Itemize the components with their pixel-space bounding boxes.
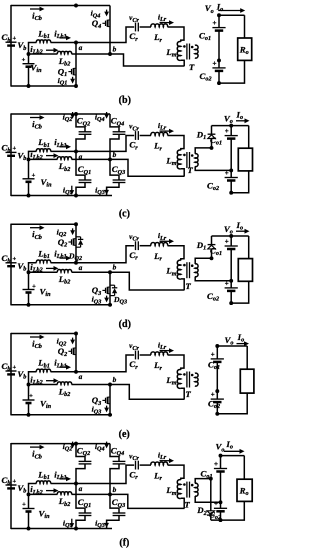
arrow i_Q1 (b) [72,77,74,81]
wire top rail (b) [11,5,110,7]
svg-text:+: + [225,279,229,287]
capacitor C_b (c) [6,151,17,153]
arrow i_Lb1 (b) [60,37,68,39]
svg-text:+: + [12,256,16,263]
wire L_b2 right (d) [72,271,111,273]
svg-text:T: T [187,165,193,175]
transformer T core (b) [186,44,188,60]
arrow i_Q4 (b) [106,10,108,14]
capacitor C_Q4 (f) [113,460,126,462]
transformer T primary polarity dot (d) [183,264,186,267]
transformer T core (d) [186,262,188,278]
capacitor C_b (d) [6,262,17,264]
inductor L_b1 (e) [36,369,50,372]
arrow i_Lr (e) [160,350,171,352]
svg-text:+: + [225,169,229,177]
wire L_b1 right (d) [51,262,77,264]
node a (b) [74,41,78,45]
capacitor C_b (b) [6,41,17,43]
svg-text:+: + [32,172,36,179]
arrow i_Cb (d) [30,227,41,229]
svg-text:+: + [22,501,26,508]
transformer T primary polarity dot (f) [183,483,186,486]
junction dot V_in top (c) [27,157,31,161]
svg-text:+: + [12,478,16,485]
diode D_1 (c) [208,133,216,135]
wire output col mid (d) [230,249,232,281]
wire L_b2 left (f) [29,493,58,495]
wire V_in branch (f) [28,494,30,508]
wire Q1 branch (b) [75,43,77,87]
transformer T secondary winding (e) [195,373,198,386]
junction dot output mid (d) [229,279,233,283]
node b (b) [108,52,112,56]
inductor L_b2 (b) [57,51,71,54]
capacitor C_Q3 (f) [113,512,126,514]
capacitor C_o1 (e) [211,358,224,360]
wire L_b1 left (e) [29,372,37,385]
junction dot output mid (c) [229,168,233,172]
wire Q3 branch (e) [109,385,111,415]
wire bottom rail (f) [11,528,112,530]
resistor load box (b) [238,38,252,60]
inductor L_r (c) [151,132,168,135]
wire L_b2 right (c) [72,158,111,160]
wire C_r to L_r (d) [140,245,151,247]
junction dot V_in top (b) [27,52,31,56]
inductor L_b1 (f) [36,481,50,484]
arrow i_Q4 (c) [106,112,108,116]
arrow i_Lb1 (e) [60,366,68,368]
arrow i_Cb (b) [30,8,41,10]
capacitor C_o1 (c) [225,135,238,137]
transformer T secondary polarity dot (e) [191,374,194,377]
junction dot output mid (b) [217,58,221,62]
junction dot top rail left leg (b) [74,4,78,8]
wire C_r to L_r (f) [140,464,151,466]
node a (f) [74,482,78,486]
arrow i_Q3 (c) [106,188,108,191]
wire bottom rail (d) [11,304,112,306]
wire C_r to L_r (c) [140,135,151,137]
capacitor C_o2 (c) [225,177,238,179]
wire transformer primary bottom (e) [181,388,184,399]
wire left rail (e) [10,333,12,416]
wire R box top lead (b) [244,15,246,38]
arrow I_o (b) [218,10,242,12]
wire D_1 lower lead (c) [211,139,213,148]
junction dot V_in bottom (d) [27,303,31,307]
wire C_Q3 branch upper (c) [110,159,119,180]
capacitor C_Q1 (f) [79,512,92,514]
junction dot top rail left leg (f) [74,442,78,446]
svg-text:b: b [113,485,117,494]
inductor L_r (e) [151,352,168,355]
junction dot output top (b) [217,13,221,17]
svg-text:+: + [225,237,229,245]
wire output top (c) [212,125,249,127]
wire output col upper (c) [230,126,232,136]
svg-text:+: + [12,35,16,42]
inductor L_r (d) [151,243,168,246]
arrow i_Cb (c) [30,117,41,119]
junction dot C_Q1 bottom (c) [74,194,78,198]
junction dot output mid (f) [219,500,223,504]
wire output col lower1 (b) [218,60,220,68]
wire left rail (d) [10,224,12,306]
wire C_Q2 branch upper (c) [76,114,85,132]
svg-text:b: b [113,375,117,384]
junction dot V_in top (f) [27,492,31,496]
panel (d) begin [2,220,253,330]
wire D_2 lower lead (f) [210,515,212,520]
transistor Q3 (e) [102,399,105,401]
svg-text:T: T [184,500,190,510]
wire C_r to L_r (b) [140,26,151,28]
wire secondary top to D_1 (d) [195,258,211,264]
wire node b to transformer bottom (f) [110,494,185,508]
wire output col lower2 (b) [218,71,220,83]
svg-text:T: T [185,281,191,291]
wire output col upper (d) [230,236,232,246]
wire R box top lead (e) [246,346,248,369]
svg-text:+: + [12,145,16,152]
wire output top (f) [221,455,245,457]
arrow i_Lb2 (f) [46,490,55,492]
wire L_b1 right (b) [51,42,77,44]
wire output col mid (c) [230,139,232,171]
capacitor C_Q4 (c) [113,131,126,133]
wire D_1 upper lead (d) [211,236,213,245]
transistor Q2 (e) [68,350,71,352]
wire top rail (c) [11,113,110,115]
capacitor C_o1 (d) [225,245,238,247]
arrow i_Q3 (f) [106,521,108,524]
transformer T core (f) [186,482,188,498]
inductor L_r (f) [151,462,168,465]
arrow i_Q3 (d) [106,296,108,300]
inductor L_b1 (d) [36,260,50,263]
wire transformer primary bottom (b) [181,60,184,66]
transformer T core (c) [186,152,188,168]
wire D_2 upper lead (f) [210,479,212,511]
arrow i_Q2 (d) [72,228,74,232]
junction dot output top (f) [219,454,223,458]
node b (f) [108,492,112,496]
junction dot V_in top (d) [27,270,31,274]
wire C_Q1 branch upper (f) [76,484,85,514]
svg-text:b: b [113,263,117,272]
wire C_Q3 branch lower (c) [107,183,119,196]
wire output col lower1 (c) [230,170,232,177]
junction dot V_in top (e) [27,383,31,387]
svg-text:a: a [79,484,83,493]
junction dot output bottom (b) [217,81,221,85]
battery V_in (b) [23,63,35,65]
wire top rail (f) [11,443,110,445]
wire L_r to transformer (d) [168,246,185,261]
arrow I_o (f) [224,450,241,452]
transformer T secondary polarity dot (f) [191,484,194,487]
wire output col upper (f) [220,456,222,469]
capacitor C_o1 (f) [214,468,227,470]
wire L_r to transformer (e) [168,355,185,370]
wire L_b2 right (b) [72,53,111,55]
svg-text:+: + [211,391,215,399]
wire L_r to transformer (f) [168,465,185,480]
inductor L_b2 (e) [57,382,71,385]
wire secondary bottom to output mid (c) [195,166,231,170]
wire Q2 branch (d) [75,224,77,263]
junction dot bottom rail left leg (b) [74,84,78,88]
wire secondary top to D_2 (f) [195,479,211,484]
wire L_b2 right (f) [72,493,111,495]
battery V_in (c) [23,178,35,180]
wire output col lower2 (c) [230,181,232,193]
node b (c) [108,157,112,161]
capacitor C_r (f) [135,461,137,470]
capacitor C_b (f) [6,484,17,486]
transformer T secondary winding (d) [195,264,198,277]
wire bottom rail (c) [11,195,112,197]
svg-text:+: + [22,57,26,64]
wire L_b1 right (c) [51,150,77,152]
arrow i_Q1 (f) [71,519,73,525]
wire secondary top to D_1 (c) [195,148,211,154]
wire L_b1 left (b) [29,43,37,55]
wire C_Q1 branch upper (c) [76,151,85,180]
junction dot bottom rail right leg (d) [108,303,112,307]
wire V_in branch (d) [28,272,30,289]
wire Q2 branch (e) [75,334,77,372]
junction dot output top (d) [229,234,233,238]
capacitor C_o2 (f) [214,507,227,509]
transistor Q2 (d) [68,241,71,243]
transistor Q1 (b) [68,71,71,73]
wire top rail (d) [11,223,76,225]
wire C_Q2 branch lower (f) [76,464,85,484]
junction dot output bottom (d) [229,301,233,305]
wire transformer primary bottom (f) [181,498,184,508]
wire node b to transformer bottom (d) [110,272,185,290]
transformer T secondary winding (c) [195,154,198,167]
transformer T primary winding (b) [177,41,181,60]
svg-text:(e): (e) [119,429,130,440]
battery V_in (f) [23,508,35,510]
capacitor C_b (e) [6,370,17,372]
junction dot D_2 anode (f) [209,477,213,481]
wire output bottom (f) [211,501,245,520]
svg-text:+: + [32,283,36,290]
capacitor C_o1 (b) [212,27,225,29]
node a (d) [74,261,78,265]
wire V_in branch (e) [28,385,30,401]
arrow i_Lb1 (c) [60,146,68,148]
junction dot V_in bottom (b) [27,84,31,88]
wire node a to tank (b) [76,27,134,43]
wire C_Q4 branch upper (c) [110,114,119,132]
inductor L_b2 (d) [57,270,71,273]
transformer T primary polarity dot (e) [183,373,186,376]
node b (d) [108,270,112,274]
wire bottom rail (e) [11,414,112,416]
inductor L_b1 (b) [36,40,50,43]
battery V_in (e) [23,399,35,401]
arrow i_Q1 (c) [71,186,73,192]
wire D_1 lower lead (d) [211,249,213,258]
arrow I_o (e) [237,343,246,345]
wire L_b2 right (e) [72,384,111,386]
capacitor C_Q2 (c) [79,131,92,133]
svg-text:+: + [225,127,229,135]
wire V_in branch (c) [28,159,30,178]
wire C_Q1 branch lower (f) [76,516,85,529]
capacitor C_Q3 (c) [113,179,126,181]
transformer T primary winding (e) [177,369,181,388]
wire L_b2 left (e) [29,384,58,386]
panel (c) begin [2,109,253,219]
diode D_1 (d) [208,244,216,246]
junction dot output top (e) [215,344,219,348]
svg-text:(c): (c) [119,208,130,219]
svg-text:b: b [113,44,117,53]
wire C_Q4 branch upper (f) [110,444,119,462]
svg-text:+: + [214,500,218,508]
node a (c) [74,149,78,153]
arrow i_Lb2 (c) [46,155,55,157]
junction dot top rail left leg (d) [74,222,78,226]
panel (f) begin [2,439,253,548]
svg-text:(b): (b) [119,95,131,106]
wire L_b2 left (d) [29,271,58,273]
arrow i_Cb (f) [30,446,41,448]
capacitor C_Q2 (f) [79,460,92,462]
wire transformer primary bottom (d) [181,279,184,290]
wire C_Q4 branch lower (f) [110,464,119,495]
wire L_b1 left (c) [29,151,37,159]
wire output col mid (b) [218,31,220,61]
wire R box top lead (d) [248,236,250,259]
arrow i_Lr (d) [160,240,171,242]
wire left rail (c) [10,113,12,196]
wire C_Q2 branch lower (c) [76,134,85,151]
wire R box top lead (f) [243,456,245,480]
capacitor C_o2 (b) [212,67,225,69]
wire output bottom (c) [231,171,249,193]
transformer T secondary polarity dot (b) [191,46,194,49]
transformer T secondary polarity dot (d) [191,264,194,267]
wire output col lower2 (d) [230,291,232,303]
wire node a to tank (e) [76,355,134,372]
wire V_in branch (b) [28,54,30,64]
wire L_b1 left (f) [29,484,37,495]
circuit schematic: LLC converter operating intervals (b)-(f) [0,0,256,550]
arrow i_Lb2 (b) [46,49,55,51]
wire output col lower1 (e) [216,391,218,399]
wire output col upper (e) [216,346,218,359]
wire top rail (e) [11,333,76,335]
capacitor C_Q1 (c) [79,179,92,181]
svg-text:+: + [211,350,215,358]
arrow i_Lb2 (e) [46,380,55,382]
arrow i_Q2 (c) [72,112,74,116]
inductor L_r (b) [151,24,168,27]
transformer T primary polarity dot (c) [183,154,186,157]
svg-text:T: T [189,62,195,72]
capacitor C_o2 (d) [225,287,238,289]
svg-text:+: + [213,59,217,67]
resistor load box (e) [240,369,254,393]
wire left rail (f) [10,443,12,529]
junction dot output top (c) [229,124,233,128]
capacitor C_r (c) [135,131,137,140]
svg-text:a: a [79,43,83,52]
transformer T primary winding (d) [177,260,181,279]
junction dot C_Q1 bottom (f) [74,527,78,531]
diode D_2 (f) [207,514,215,516]
svg-text:+: + [29,393,33,400]
arrow i_Lb1 (f) [60,478,68,480]
wire L_r to transformer (c) [168,136,185,151]
svg-text:T: T [185,389,191,399]
wire D_1 upper lead (c) [211,126,213,135]
wire secondary bottom to output mid (d) [195,277,231,281]
wire output col lower2 (f) [220,511,222,520]
junction dot top rail left leg (c) [74,112,78,116]
svg-text:+: + [213,19,217,27]
wire L_r to transformer (b) [168,27,185,42]
junction dot V_in bottom (c) [27,194,31,198]
junction dot top rail left leg (e) [74,332,78,336]
wire left rail (b) [10,5,12,87]
arrow I_o (d) [236,230,246,232]
wire L_b1 right (f) [51,483,77,485]
junction dot bottom rail right leg (e) [108,413,112,417]
resistor load box (c) [238,148,252,171]
wire R box top lead (c) [248,126,250,149]
junction dot output mid (e) [215,389,219,393]
wire C_Q3 branch lower (f) [107,516,119,529]
battery V_in (d) [23,289,35,291]
wire output col mid (f) [220,472,222,503]
wire node b to transformer bottom (e) [110,385,185,400]
node b (e) [108,383,112,387]
arrow i_Q2 (f) [72,442,74,446]
junction dot V_in bottom (e) [27,413,31,417]
wire output bottom (e) [217,393,247,414]
node a (e) [74,370,78,374]
svg-text:a: a [79,372,83,381]
wire node a to tank (f) [76,465,134,483]
transformer T primary winding (f) [177,480,181,499]
arrow i_Q3 (e) [106,406,108,410]
wire C_Q2 branch upper (f) [76,444,85,462]
junction dot D_1 anode (c) [210,146,214,150]
svg-text:a: a [79,263,83,272]
wire L_b2 left (b) [29,53,58,55]
junction dot D_1 anode (d) [210,256,214,260]
wire node a to tank (d) [76,246,134,263]
resistor load box (f) [237,479,252,501]
wire bottom rail (b) [11,85,77,87]
junction dot output bottom (e) [215,412,219,416]
wire L_b1 left (d) [29,263,37,273]
transformer T secondary winding (b) [195,45,198,58]
arrow i_Q2 (e) [72,338,74,342]
arrow i_Lr (c) [160,130,171,132]
transformer T primary winding (c) [177,150,181,169]
svg-text:(d): (d) [119,319,131,330]
